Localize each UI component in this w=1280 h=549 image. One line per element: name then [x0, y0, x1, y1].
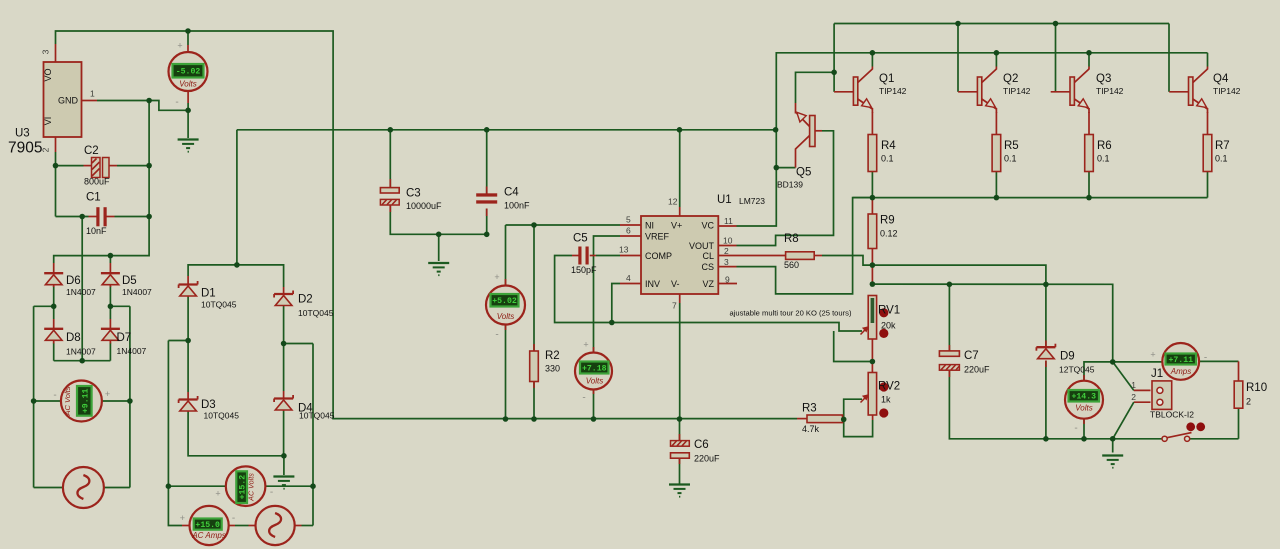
svg-text:0.1: 0.1 [1215, 154, 1228, 164]
svg-text:+: + [494, 272, 499, 282]
svg-text:-: - [175, 97, 178, 108]
svg-text:D6: D6 [66, 275, 81, 287]
svg-text:D1: D1 [201, 288, 216, 300]
svg-text:R10: R10 [1246, 382, 1267, 394]
svg-text:-: - [270, 487, 273, 498]
svg-text:C3: C3 [406, 188, 421, 200]
svg-text:C7: C7 [964, 350, 979, 362]
svg-text:10TQ045: 10TQ045 [299, 411, 335, 421]
svg-text:AC Volts: AC Volts [63, 386, 72, 416]
svg-text:1N4007: 1N4007 [66, 347, 96, 357]
svg-text:ajustable multi tour 20 KO (25: ajustable multi tour 20 KO (25 tours) [730, 309, 852, 318]
svg-text:10TQ045: 10TQ045 [204, 411, 240, 421]
svg-text:CL: CL [702, 251, 714, 261]
svg-text:560: 560 [784, 260, 799, 270]
svg-text:D5: D5 [122, 275, 137, 287]
svg-text:R4: R4 [881, 140, 896, 152]
svg-text:5: 5 [626, 215, 631, 225]
svg-text:3: 3 [724, 257, 729, 267]
svg-text:+: + [180, 513, 185, 523]
svg-text:10TQ045: 10TQ045 [201, 300, 237, 310]
svg-text:-: - [495, 330, 498, 341]
svg-text:COMP: COMP [645, 251, 672, 261]
svg-text:150pF: 150pF [571, 265, 597, 275]
svg-text:Q4: Q4 [1213, 73, 1229, 85]
svg-text:D7: D7 [117, 332, 132, 344]
svg-text:Volts: Volts [179, 80, 197, 89]
svg-text:Q3: Q3 [1096, 73, 1111, 85]
svg-text:4.7k: 4.7k [802, 424, 820, 434]
svg-text:800uF: 800uF [84, 177, 110, 187]
svg-text:1: 1 [90, 89, 95, 99]
svg-text:10TQ045: 10TQ045 [298, 308, 334, 318]
svg-text:-5.02: -5.02 [176, 68, 201, 77]
svg-text:2: 2 [1246, 397, 1251, 407]
svg-text:7905: 7905 [8, 140, 42, 157]
svg-text:+: + [583, 340, 588, 350]
svg-text:CS: CS [701, 262, 714, 272]
svg-text:VC: VC [701, 221, 714, 231]
svg-text:220uF: 220uF [964, 365, 990, 375]
svg-text:D3: D3 [201, 399, 216, 411]
svg-text:VREF: VREF [645, 232, 670, 242]
svg-text:+: + [215, 489, 220, 499]
svg-text:+7.18: +7.18 [582, 364, 607, 373]
svg-text:TIP142: TIP142 [1096, 86, 1124, 96]
svg-text:LM723: LM723 [739, 196, 765, 206]
svg-text:R9: R9 [880, 215, 895, 227]
svg-text:R3: R3 [802, 403, 817, 415]
svg-text:U1: U1 [717, 194, 732, 206]
svg-text:Q5: Q5 [796, 167, 811, 179]
svg-text:VI: VI [43, 117, 53, 126]
svg-text:D8: D8 [66, 332, 81, 344]
svg-text:R8: R8 [784, 233, 799, 245]
svg-text:RV2: RV2 [878, 381, 900, 393]
svg-text:+7.11: +7.11 [1168, 356, 1193, 365]
svg-text:1N4007: 1N4007 [117, 346, 147, 356]
svg-text:C1: C1 [86, 192, 101, 204]
svg-text:10: 10 [723, 236, 733, 246]
svg-text:R5: R5 [1004, 140, 1019, 152]
svg-text:1k: 1k [881, 395, 891, 405]
svg-text:1N4007: 1N4007 [66, 287, 96, 297]
svg-text:RV1: RV1 [878, 305, 900, 317]
svg-text:0.1: 0.1 [1097, 154, 1110, 164]
svg-text:Q2: Q2 [1003, 73, 1018, 85]
svg-text:C5: C5 [573, 233, 588, 245]
svg-text:INV: INV [645, 279, 660, 289]
svg-text:0.1: 0.1 [1004, 154, 1017, 164]
svg-text:-: - [232, 513, 235, 524]
svg-text:+: + [1150, 350, 1155, 360]
svg-text:D9: D9 [1060, 351, 1075, 363]
svg-text:+5.02: +5.02 [492, 297, 517, 306]
svg-text:+: + [177, 41, 182, 51]
svg-text:NI: NI [645, 221, 654, 231]
svg-text:10000uF: 10000uF [406, 201, 442, 211]
svg-text:Volts: Volts [1075, 404, 1093, 413]
svg-text:C6: C6 [694, 439, 709, 451]
svg-text:GND: GND [58, 96, 79, 106]
svg-text:13: 13 [619, 245, 629, 255]
svg-text:2: 2 [1131, 392, 1136, 402]
svg-text:V+: V+ [671, 221, 682, 231]
svg-text:12: 12 [668, 197, 678, 207]
svg-text:+14.3: +14.3 [1071, 393, 1096, 402]
svg-text:3: 3 [41, 49, 51, 54]
svg-text:VO: VO [43, 68, 53, 81]
svg-text:+: + [105, 389, 110, 399]
svg-text:TIP142: TIP142 [879, 86, 907, 96]
svg-text:D2: D2 [298, 294, 313, 306]
svg-text:R7: R7 [1215, 140, 1230, 152]
svg-text:+15.0: +15.0 [195, 521, 220, 530]
svg-text:BD139: BD139 [777, 180, 803, 190]
svg-text:10nF: 10nF [86, 226, 107, 236]
svg-text:7: 7 [672, 301, 677, 311]
svg-text:TIP142: TIP142 [1003, 86, 1031, 96]
svg-text:Amps: Amps [1170, 367, 1191, 376]
svg-text:C4: C4 [504, 187, 519, 199]
svg-text:-: - [1204, 353, 1207, 364]
svg-text:2: 2 [724, 246, 729, 256]
svg-text:11: 11 [724, 216, 733, 226]
svg-text:AC Amps: AC Amps [191, 531, 226, 540]
svg-text:20k: 20k [881, 321, 896, 331]
svg-text:9: 9 [725, 275, 730, 285]
svg-text:R6: R6 [1097, 140, 1112, 152]
svg-text:4: 4 [626, 273, 631, 283]
svg-text:-: - [1074, 423, 1077, 434]
svg-text:0.1: 0.1 [881, 154, 894, 164]
svg-text:U3: U3 [15, 128, 30, 140]
svg-text:Volts: Volts [497, 312, 515, 321]
svg-text:V-: V- [671, 279, 680, 289]
svg-text:1N4007: 1N4007 [122, 287, 152, 297]
svg-text:100nF: 100nF [504, 201, 530, 211]
svg-text:VOUT: VOUT [689, 241, 715, 251]
svg-text:+9.11: +9.11 [81, 388, 90, 413]
svg-text:VZ: VZ [702, 279, 714, 289]
svg-text:-: - [53, 390, 56, 401]
svg-text:220uF: 220uF [694, 454, 720, 464]
svg-text:Volts: Volts [586, 377, 604, 386]
svg-text:12TQ045: 12TQ045 [1059, 365, 1095, 375]
svg-text:6: 6 [626, 226, 631, 236]
svg-text:J1: J1 [1151, 368, 1163, 380]
svg-text:TIP142: TIP142 [1213, 86, 1241, 96]
svg-text:-: - [582, 393, 585, 404]
svg-text:330: 330 [545, 364, 560, 374]
svg-text:Q1: Q1 [879, 73, 894, 85]
svg-text:1: 1 [1131, 380, 1136, 390]
svg-text:C2: C2 [84, 145, 99, 157]
svg-text:AC Volts: AC Volts [247, 473, 256, 502]
svg-text:0.12: 0.12 [880, 229, 898, 239]
svg-text:R2: R2 [545, 350, 560, 362]
svg-text:TBLOCK-I2: TBLOCK-I2 [1150, 410, 1194, 420]
svg-text:2: 2 [41, 147, 51, 152]
